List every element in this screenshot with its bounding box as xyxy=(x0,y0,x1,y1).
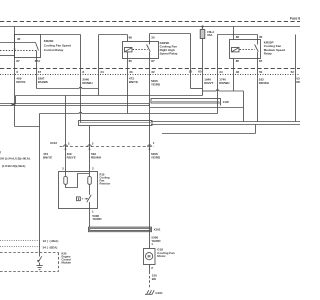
svg-text:87: 87 xyxy=(259,59,263,63)
wire: KR20E pin 30 feed / pin 87 output 409 RD/YE xyxy=(14,27,16,104)
svg-text:RD/YE: RD/YE xyxy=(67,155,76,159)
svg-text:30: 30 xyxy=(17,37,21,41)
in-line connector X122 (dashed) xyxy=(60,146,154,148)
svg-text:87A: 87A xyxy=(35,59,41,63)
wire: 1740 RD/WH xyxy=(218,34,258,36)
svg-text:33: 33 xyxy=(129,70,133,74)
svg-text:85: 85 xyxy=(129,59,133,63)
svg-text:RD/VT: RD/VT xyxy=(204,81,213,85)
splice pack X101 xyxy=(89,227,152,232)
svg-text:86: 86 xyxy=(236,35,240,39)
svg-text:86: 86 xyxy=(129,35,133,39)
wire: run from 5306 to KR20P 85 route xyxy=(150,107,244,109)
wire: 5306 YE/RD (KR20K pin 87 to motor) xyxy=(149,52,151,249)
wire: 473 BN/YE (KR20K pin 85) xyxy=(127,52,129,114)
svg-text:(-0EA): (-0EA) xyxy=(50,239,59,243)
svg-text:KR20E: KR20E xyxy=(44,39,54,43)
svg-text:RD/WH: RD/WH xyxy=(219,81,229,85)
svg-text:Cooling Fan Speed: Cooling Fan Speed xyxy=(44,43,71,47)
svg-text:M: M xyxy=(148,255,151,259)
svg-text:67: 67 xyxy=(38,70,42,74)
svg-text:(LU4/LUJ)(-0EA): (LU4/LUJ)(-0EA) xyxy=(2,164,25,168)
svg-text:13: 13 xyxy=(43,239,47,243)
X122 terminal on 5306 wire xyxy=(148,145,152,147)
svg-text:65: 65 xyxy=(198,70,202,74)
svg-text:35: 35 xyxy=(189,70,193,74)
ground G101 xyxy=(145,290,154,294)
svg-text:YE/RD: YE/RD xyxy=(151,239,161,243)
svg-text:Resistor: Resistor xyxy=(100,181,111,185)
fuse block harness boundary (dashed) xyxy=(0,21,300,23)
resistor R10 (Cooling Fan Resistor) xyxy=(59,172,98,209)
svg-text:YE/RD: YE/RD xyxy=(151,156,161,160)
svg-text:60A: 60A xyxy=(207,33,212,37)
svg-text:30: 30 xyxy=(151,35,155,39)
svg-text:Speed Relay: Speed Relay xyxy=(160,52,178,56)
relay KR20E (Cooling Fan Speed Control Relay) xyxy=(0,35,41,63)
fuse block connector row (dotted) xyxy=(0,74,300,76)
svg-text:24: 24 xyxy=(100,70,104,74)
svg-text:RD/WH: RD/WH xyxy=(82,81,92,85)
wire: 1940 RD/VT (fuse output) xyxy=(202,39,204,96)
fuse block bottom edge (dashed) xyxy=(0,68,300,70)
wire: 532 RD/WH (KR20P pin 87) xyxy=(257,59,259,122)
bus pair from left (fan control wires) xyxy=(0,103,148,105)
ECM low-side driver xyxy=(39,256,42,261)
wire: KR20K pin 30 feed route xyxy=(150,33,191,35)
wire: fuse block pin 24 feed xyxy=(98,35,100,96)
svg-text:RD: RD xyxy=(296,80,300,84)
svg-text:48: 48 xyxy=(236,70,240,74)
svg-text:87: 87 xyxy=(151,59,155,63)
wire: KR20P pin 85 route xyxy=(233,59,235,92)
wire: 473 run to ECM xyxy=(40,113,80,115)
wire: 5306 YE/RD from R10 pin 1 xyxy=(89,209,91,228)
fuse F8LA 60A xyxy=(200,25,205,38)
module K20 Engine Control Module (dashed box) xyxy=(0,253,59,272)
svg-text:G101: G101 xyxy=(155,291,163,295)
wire: stub run below bus xyxy=(162,133,256,135)
svg-text:YE/RD: YE/RD xyxy=(151,82,161,86)
svg-text:RD/WH: RD/WH xyxy=(91,155,101,159)
motor G18 (Cooling Fan Motor) xyxy=(144,249,156,265)
svg-text:BN/YE: BN/YE xyxy=(43,155,52,159)
fuse block top edge xyxy=(0,26,300,28)
wire: KR20K coil feed pin 86 xyxy=(127,35,129,42)
X122 terminal on 409 wire xyxy=(64,145,68,147)
svg-text:BN/YE: BN/YE xyxy=(129,80,138,84)
svg-text:85: 85 xyxy=(236,59,240,63)
relay KR20K (Cooling Fan Right High Speed Relay) xyxy=(123,34,159,63)
svg-text:X126: X126 xyxy=(223,100,230,104)
wire: right edge feed xyxy=(295,35,297,122)
X122 terminal on 532 wire xyxy=(88,145,92,147)
svg-text:54: 54 xyxy=(43,245,47,249)
svg-text:RD/YE: RD/YE xyxy=(16,80,25,84)
svg-text:): ) xyxy=(0,150,1,154)
svg-text:Control Relay: Control Relay xyxy=(44,48,64,52)
wire: 150 BK ground wire xyxy=(149,265,151,272)
relay KR20P (Cooling Fan Medium Speed Relay) xyxy=(230,35,263,63)
svg-text:YE/RD: YE/RD xyxy=(92,217,102,221)
wire: feed to KR20K coil xyxy=(99,34,128,36)
svg-text:X101: X101 xyxy=(154,227,161,231)
splice bus bar (long) xyxy=(79,121,153,126)
svg-text:5H (LU4+LUJ)(+0EA): 5H (LU4+LUJ)(+0EA) xyxy=(0,157,30,161)
wire: 532 RD/WH branch to R10 xyxy=(89,126,91,177)
svg-text:32: 32 xyxy=(151,70,155,74)
svg-text:Relay: Relay xyxy=(264,51,272,55)
svg-text:WH/BK: WH/BK xyxy=(38,80,49,84)
svg-text:87: 87 xyxy=(16,59,20,63)
svg-text:Fuse Block: Fuse Block xyxy=(290,17,300,21)
svg-text:(0EA): (0EA) xyxy=(50,245,58,249)
wire: horizontal feed run xyxy=(16,95,203,97)
svg-text:Motor: Motor xyxy=(157,254,166,258)
svg-text:50: 50 xyxy=(259,70,263,74)
wire: 2040 RD/WH xyxy=(41,34,81,36)
splice bar X126 xyxy=(151,99,221,104)
svg-text:30: 30 xyxy=(259,35,263,39)
wire: 409 RD/YE branch to R10 xyxy=(65,96,67,177)
wire: KR20E pin 87A 5297 WH/BK xyxy=(36,51,38,89)
svg-text:Module: Module xyxy=(62,261,72,265)
svg-text:RD/WH: RD/WH xyxy=(259,81,269,85)
wire: KR20P coil feed pin 86 xyxy=(233,27,235,40)
svg-text:X122: X122 xyxy=(50,141,57,145)
bus pair off-page chevron xyxy=(11,104,14,106)
ECM K20 connector rows (dotted) xyxy=(0,240,42,242)
ECM internal ground xyxy=(39,263,41,266)
svg-text:52: 52 xyxy=(291,70,295,74)
svg-text:34: 34 xyxy=(219,70,223,74)
wire: drop from bus to ECM run xyxy=(14,106,16,127)
